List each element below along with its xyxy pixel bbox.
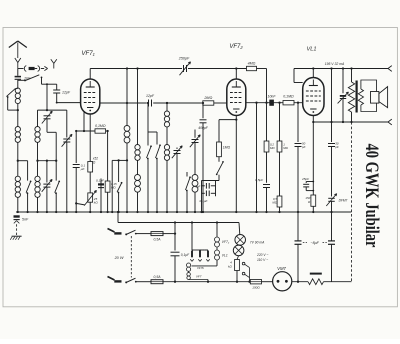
svg-text:195 V 32 mA: 195 V 32 mA: [325, 62, 345, 66]
svg-text:7V 90 mA: 7V 90 mA: [250, 240, 265, 244]
svg-text:5nF: 5nF: [195, 184, 200, 188]
svg-text:110 V ~: 110 V ~: [257, 258, 268, 262]
svg-text:VM7: VM7: [277, 266, 286, 271]
svg-text:4MΩ: 4MΩ: [248, 62, 256, 66]
svg-text:pF: pF: [334, 145, 339, 149]
svg-text:25pF: 25pF: [301, 177, 309, 181]
svg-text:VF7: VF7: [196, 274, 202, 278]
svg-text:12pF: 12pF: [62, 90, 71, 94]
svg-text:20 W: 20 W: [114, 256, 124, 260]
svg-text:220 V ~: 220 V ~: [256, 253, 269, 257]
svg-text:0,1μF: 0,1μF: [181, 253, 190, 257]
svg-text:pF: pF: [301, 145, 306, 149]
svg-text:MΩ: MΩ: [270, 146, 275, 150]
svg-text:0,5A: 0,5A: [154, 275, 162, 279]
svg-text:VF7₁: VF7₁: [81, 50, 94, 57]
svg-text:DFM7: DFM7: [339, 198, 348, 202]
svg-text:VF7b: VF7b: [197, 266, 204, 270]
svg-text:MΩ: MΩ: [272, 201, 277, 205]
svg-text:0,1μF: 0,1μF: [96, 178, 105, 182]
svg-text:VF7₂: VF7₂: [222, 240, 230, 244]
svg-text:VL1: VL1: [222, 254, 228, 258]
svg-text:VL1: VL1: [307, 47, 317, 53]
svg-text:5nF: 5nF: [22, 218, 29, 222]
svg-text:MΩ: MΩ: [283, 146, 288, 150]
svg-text:~8μF: ~8μF: [310, 241, 319, 245]
svg-text:250pF: 250pF: [178, 57, 190, 61]
svg-text:0,1MΩ: 0,1MΩ: [95, 124, 106, 128]
svg-text:0,1MΩ: 0,1MΩ: [283, 94, 294, 98]
svg-text:0,5μF: 0,5μF: [255, 178, 264, 182]
svg-text:12pF: 12pF: [146, 94, 155, 98]
svg-text:40 GWK Jubilar: 40 GWK Jubilar: [361, 144, 382, 248]
svg-text:0,5A: 0,5A: [154, 238, 162, 242]
svg-text:0,1μF: 0,1μF: [200, 199, 209, 203]
svg-text:1MΩ: 1MΩ: [223, 146, 231, 150]
svg-text:kΩ: kΩ: [94, 201, 99, 205]
svg-text:10nF: 10nF: [268, 94, 277, 98]
svg-text:150Ω: 150Ω: [252, 285, 260, 289]
svg-text:2MΩ: 2MΩ: [203, 96, 212, 100]
svg-text:VF7₂: VF7₂: [229, 44, 243, 50]
